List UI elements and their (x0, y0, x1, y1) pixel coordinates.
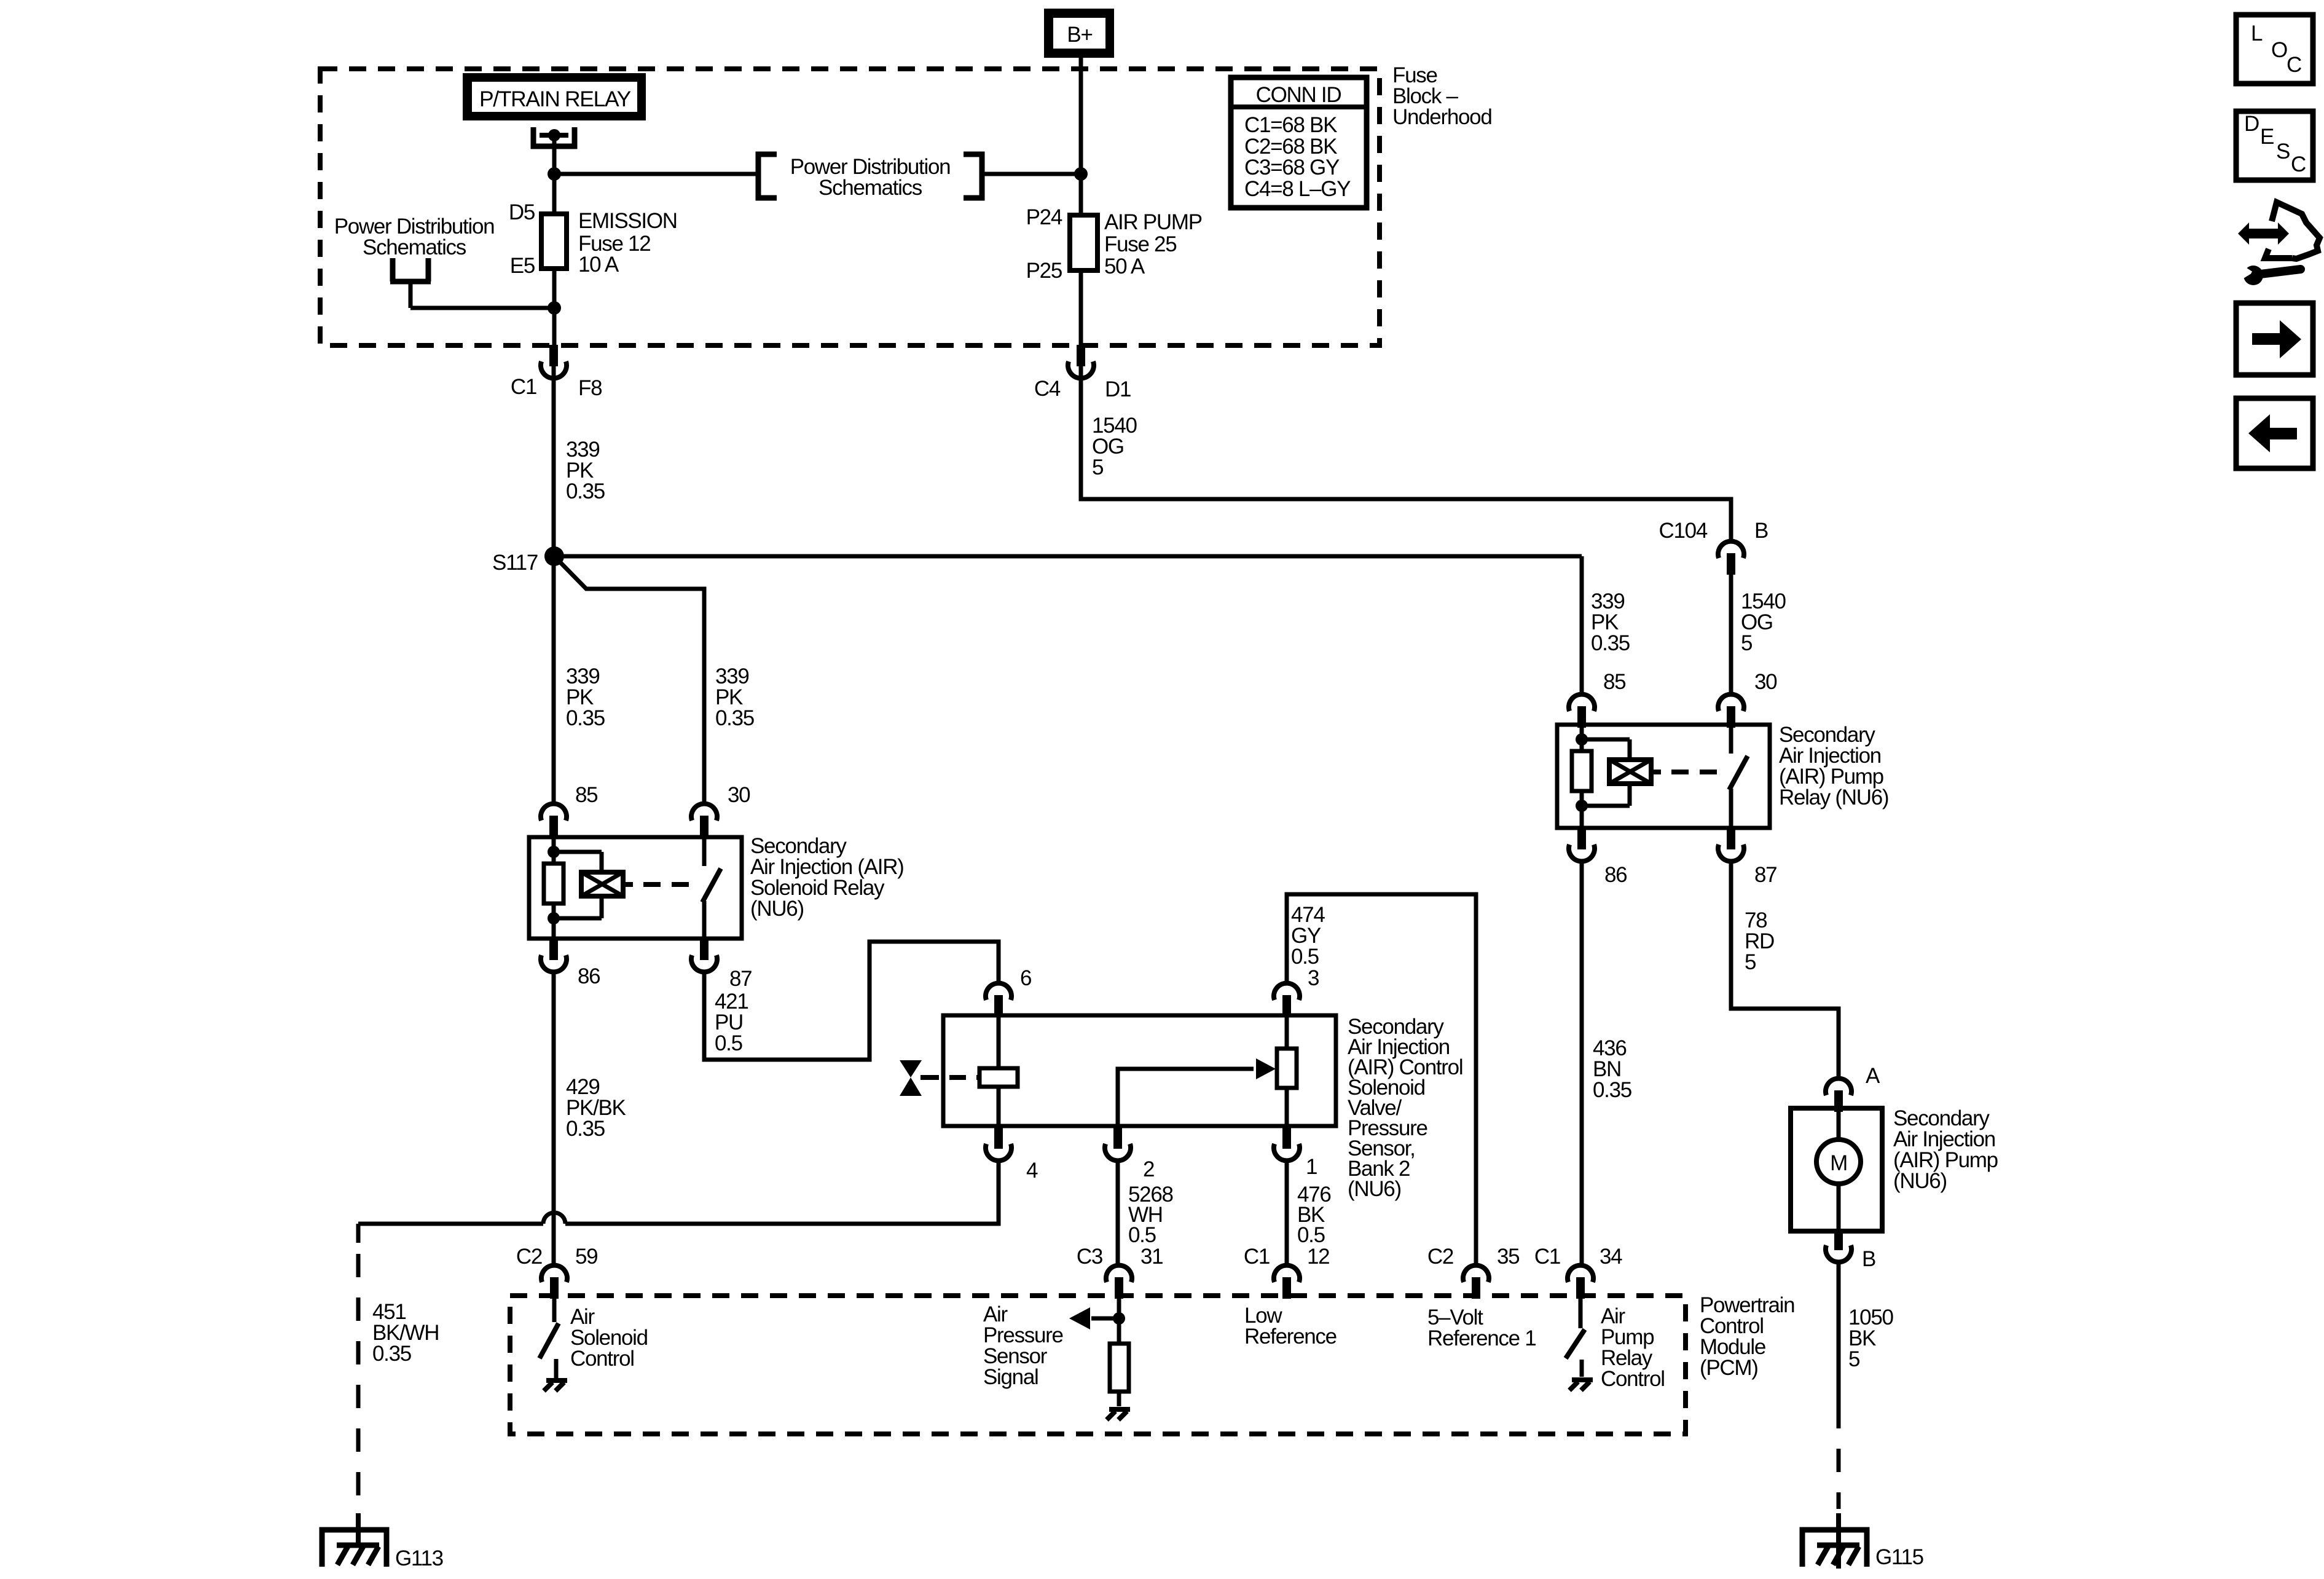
valve solenoid coil (997, 1015, 1001, 1068)
svg-text:C: C (2287, 53, 2301, 77)
svg-text:86: 86 (1604, 863, 1627, 887)
fuse block - underhood dashed box (320, 69, 1380, 345)
svg-text:E5: E5 (510, 254, 535, 278)
relay pin 87 connector (700, 939, 709, 960)
svg-text:G115: G115 (1875, 1545, 1923, 1569)
connector C1 pin F8 (549, 345, 558, 366)
svg-text:F8: F8 (578, 376, 602, 400)
valve pin 3 connector (1274, 983, 1300, 1000)
svg-text:87: 87 (1754, 863, 1776, 887)
svg-text:EMISSION: EMISSION (578, 209, 677, 233)
svg-text:87: 87 (729, 967, 752, 991)
svg-text:1: 1 (1306, 1155, 1317, 1179)
wire 339 PK 0.35 to splice S117 (552, 365, 556, 556)
svg-text:0.35: 0.35 (715, 706, 754, 730)
svg-text:0.35: 0.35 (566, 479, 605, 503)
fuse EMISSION Fuse 12 10A (541, 214, 567, 269)
svg-text:E: E (2260, 125, 2274, 149)
svg-text:CONN ID: CONN ID (1256, 83, 1341, 107)
wire 1540 OG 5 to C104 (1081, 365, 1731, 540)
svg-text:Signal: Signal (983, 1365, 1038, 1389)
pump relay pin 86 connector (1577, 828, 1586, 849)
icon DESC (2236, 111, 2313, 180)
svg-text:30: 30 (728, 783, 750, 807)
svg-text:C3: C3 (1077, 1245, 1102, 1269)
svg-text:O: O (2271, 38, 2287, 62)
PCM connector C2 pin 35 (1463, 1266, 1489, 1282)
wire 5268 WH 0.5 valve pin 2 to PCM pin 31 (1116, 1159, 1120, 1264)
svg-text:Reference 1: Reference 1 (1427, 1326, 1536, 1350)
icon arrow next (2236, 303, 2313, 375)
svg-text:5: 5 (1848, 1347, 1859, 1371)
svg-text:C3=68 GY: C3=68 GY (1244, 156, 1340, 179)
wire 421 PU 0.5 to AIR control solenoid valve pin 6 (704, 942, 999, 1060)
svg-text:C1: C1 (1244, 1245, 1270, 1269)
PCM dashed box (510, 1296, 1686, 1434)
wire tag to air pump fuse feed (984, 172, 1081, 176)
svg-text:P24: P24 (1026, 205, 1062, 229)
svg-text:C2: C2 (516, 1245, 542, 1269)
node junction at air pump feed (1074, 167, 1088, 181)
svg-text:C1: C1 (511, 375, 536, 399)
valve pin 4 connector (994, 1127, 1003, 1149)
svg-text:C2: C2 (1427, 1245, 1453, 1269)
svg-text:(NU6): (NU6) (750, 897, 804, 921)
svg-text:0.35: 0.35 (1591, 631, 1630, 655)
wire to Power Distribution Schematics tag (554, 172, 756, 176)
svg-text:C4: C4 (1034, 377, 1061, 401)
input Air Pressure Sensor Signal (1117, 1298, 1121, 1344)
svg-text:C4=8 L–GY: C4=8 L–GY (1244, 177, 1351, 201)
svg-text:(NU6): (NU6) (1893, 1169, 1947, 1193)
pressure sensor element (1285, 1015, 1289, 1049)
driver Air Pump Relay Control (1579, 1298, 1583, 1328)
svg-text:0.5: 0.5 (1291, 945, 1319, 969)
valve pin 2 connector (1113, 1127, 1122, 1149)
svg-text:2: 2 (1143, 1157, 1154, 1181)
svg-text:L: L (2251, 22, 2263, 45)
relay solenoid symbol (581, 872, 623, 896)
svg-text:Relay (NU6): Relay (NU6) (1779, 786, 1888, 809)
svg-text:D5: D5 (509, 200, 535, 224)
svg-text:B+: B+ (1067, 23, 1092, 47)
svg-text:D1: D1 (1105, 377, 1131, 401)
pump relay coil (1580, 725, 1584, 751)
svg-text:12: 12 (1307, 1245, 1329, 1269)
svg-text:34: 34 (1600, 1245, 1622, 1269)
svg-text:85: 85 (1603, 670, 1625, 694)
svg-text:10 A: 10 A (578, 253, 619, 277)
valve pin 6 connector (986, 983, 1011, 1000)
svg-text:(PCM): (PCM) (1700, 1356, 1758, 1380)
svg-text:Underhood: Underhood (1392, 105, 1492, 129)
ground G113 (356, 1513, 361, 1548)
svg-text:C1: C1 (1534, 1245, 1560, 1269)
svg-text:0.5: 0.5 (1128, 1223, 1156, 1247)
wire 78 RD 5 to AIR pump (1731, 859, 1839, 1077)
PCM connector C2 pin 59 (541, 1266, 567, 1282)
svg-text:S: S (2276, 140, 2290, 163)
svg-text:(NU6): (NU6) (1348, 1177, 1401, 1201)
svg-text:0.35: 0.35 (566, 706, 605, 730)
wire 1050 BK 5 to ground G115 (1837, 1260, 1841, 1405)
relay pin 86 connector (549, 939, 558, 960)
wire p/train relay to Emission fuse (552, 135, 557, 214)
wire 1540 OG 5 C104 to pump relay pin 30 (1729, 569, 1733, 693)
svg-text:5: 5 (1745, 950, 1756, 974)
power symbol B+ (1044, 9, 1114, 58)
p/train relay output pin symbol (533, 127, 575, 146)
svg-text:C: C (2291, 152, 2306, 176)
svg-text:5: 5 (1741, 631, 1752, 655)
ground G115 (1836, 1513, 1841, 1569)
svg-text:Schematics: Schematics (819, 176, 922, 200)
svg-text:31: 31 (1140, 1245, 1163, 1269)
valve pin 1 connector (1282, 1127, 1291, 1149)
svg-text:30: 30 (1754, 670, 1777, 694)
svg-text:5: 5 (1092, 455, 1103, 479)
svg-text:Reference: Reference (1244, 1325, 1337, 1349)
relay pin 30 connector (691, 804, 717, 821)
svg-text:Fuse 25: Fuse 25 (1104, 232, 1176, 256)
svg-text:Schematics: Schematics (363, 235, 466, 259)
svg-text:M: M (1830, 1151, 1847, 1175)
svg-text:50 A: 50 A (1104, 254, 1145, 278)
relay pin 85 connector (541, 804, 567, 821)
svg-text:S117: S117 (492, 551, 538, 575)
svg-text:59: 59 (575, 1245, 597, 1269)
wire B+ to Air Pump fuse (1079, 58, 1083, 215)
sensor wiper arrow (1118, 1069, 1254, 1126)
wire 474 GY 0.5 valve pin 3 to PCM pin 35 (1287, 894, 1476, 1264)
svg-text:D: D (2244, 112, 2259, 136)
svg-text:85: 85 (575, 783, 597, 807)
relay Secondary Air Injection (AIR) Solenoid Relay (NU6) (529, 837, 742, 939)
svg-text:C1=68 BK: C1=68 BK (1244, 113, 1337, 137)
svg-text:3: 3 (1308, 966, 1319, 990)
PCM connector C1 pin 12 (1274, 1266, 1300, 1282)
valve symbol (900, 1060, 922, 1077)
wire valve pin 4 to splice with ground branch (565, 1159, 999, 1224)
relay Secondary Air Injection (AIR) Pump Relay (NU6) (1557, 725, 1770, 828)
wire 429 PK/BK 0.35 to PCM pin 59 (552, 970, 556, 1264)
pump pin B connector (1834, 1229, 1843, 1250)
wire S117 branch to solenoid relay pin 30 (554, 556, 704, 803)
node junction below emission fuse (548, 301, 561, 315)
svg-text:B: B (1862, 1247, 1875, 1271)
pump pin A connector (1826, 1079, 1851, 1095)
svg-text:P/TRAIN RELAY: P/TRAIN RELAY (479, 87, 631, 111)
fuse AIR PUMP Fuse 25 50A (1070, 215, 1097, 270)
svg-text:B: B (1754, 519, 1768, 543)
pump relay pin 85 connector (1569, 695, 1595, 711)
svg-text:6: 6 (1020, 966, 1031, 990)
wire S117 to AIR pump relay pin 85 (554, 554, 1582, 559)
svg-text:Control: Control (570, 1347, 634, 1371)
pump relay switch contact (1729, 725, 1733, 754)
svg-text:0.5: 0.5 (715, 1031, 742, 1055)
icon LOC (2236, 15, 2313, 84)
wire 436 BN 0.35 to PCM pin 34 (1580, 859, 1584, 1264)
svg-text:0.5: 0.5 (1297, 1223, 1325, 1247)
icon arrow previous (2236, 398, 2313, 468)
wire 451 BK/WH 0.35 to ground G113 (356, 1224, 361, 1243)
wire 476 BK 0.5 valve pin 1 to PCM pin 12 (1285, 1159, 1289, 1264)
AIR pump box Secondary Air Injection (AIR) Pump (NU6) (1791, 1108, 1882, 1231)
connector C104 pin B (1718, 541, 1744, 558)
pcm internal resistor (1110, 1344, 1129, 1392)
connector C4 pin D1 (1077, 345, 1085, 366)
node junction at p/train feed (548, 167, 561, 181)
svg-text:0.35: 0.35 (372, 1342, 411, 1366)
splice S117 (544, 546, 564, 566)
svg-text:4: 4 (1026, 1159, 1038, 1183)
PCM connector C1 pin 34 (1568, 1266, 1593, 1282)
svg-text:35: 35 (1497, 1245, 1519, 1269)
driver Air Solenoid Control (552, 1298, 557, 1322)
svg-text:86: 86 (578, 964, 600, 988)
PCM connector C3 pin 31 (1106, 1266, 1132, 1282)
pump relay pin 87 connector (1727, 828, 1735, 849)
relay switch contact (702, 837, 707, 866)
off-page tag Power Distribution Schematics (center) (758, 154, 777, 198)
svg-text:C104: C104 (1659, 519, 1708, 543)
motor M (1837, 1108, 1841, 1140)
svg-text:AIR PUMP: AIR PUMP (1104, 210, 1202, 234)
P/TRAIN RELAY box (463, 73, 646, 120)
svg-text:P25: P25 (1026, 259, 1062, 283)
svg-text:G113: G113 (395, 1546, 443, 1570)
wire S117 to solenoid relay pin 85 (552, 556, 556, 803)
relay coil (552, 837, 556, 864)
wire hop over 429 wire (543, 1213, 565, 1224)
svg-text:A: A (1866, 1064, 1880, 1088)
CONN ID table (1231, 77, 1367, 208)
svg-text:0.35: 0.35 (566, 1117, 605, 1141)
pump relay pin 30 connector (1718, 695, 1744, 711)
svg-text:0.35: 0.35 (1593, 1078, 1631, 1102)
valve box Secondary Air Injection (AIR) Control Solenoid Valve/Pressure Sensor Bank 2 (NU6) (943, 1015, 1336, 1126)
icon component view (arrows and wrench) (2238, 222, 2289, 245)
svg-text:Control: Control (1601, 1367, 1665, 1391)
pump relay solenoid symbol (1609, 760, 1651, 784)
